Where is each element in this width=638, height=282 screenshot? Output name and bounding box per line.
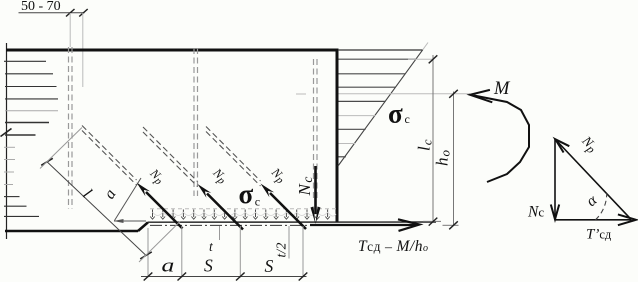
svg-text:M: M — [493, 79, 511, 99]
svg-text:c: c — [255, 195, 260, 209]
svg-text:S: S — [265, 256, 274, 276]
svg-text:a: a — [162, 255, 175, 276]
svg-text:S: S — [204, 256, 213, 276]
svg-text:c: c — [405, 112, 410, 126]
svg-text:σ: σ — [388, 99, 403, 129]
svg-text:50 - 70: 50 - 70 — [21, 0, 61, 14]
svg-text:σ: σ — [239, 179, 254, 209]
svg-text:Tсд – M/ho: Tсд – M/ho — [358, 238, 428, 255]
svg-text:Nс: Nс — [527, 204, 544, 221]
svg-text:T’сд: T’сд — [586, 227, 612, 243]
svg-text:t/2: t/2 — [274, 242, 289, 257]
